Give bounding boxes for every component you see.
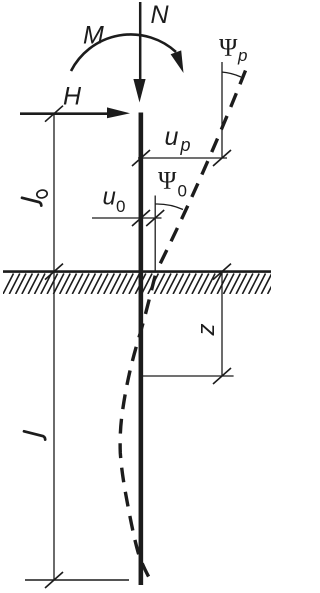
svg-text:u: u [103, 184, 116, 211]
svg-text:p: p [237, 46, 247, 65]
svg-text:Ψ: Ψ [158, 168, 177, 195]
svg-text:M: M [83, 22, 104, 50]
svg-text:N: N [151, 1, 170, 29]
svg-text:p: p [180, 135, 191, 155]
svg-text:Ψ: Ψ [219, 35, 238, 62]
svg-text:u: u [165, 123, 179, 151]
svg-text:H: H [63, 83, 82, 111]
svg-text:0: 0 [116, 197, 125, 216]
svg-text:z: z [193, 324, 220, 337]
svg-text:0: 0 [178, 182, 187, 201]
